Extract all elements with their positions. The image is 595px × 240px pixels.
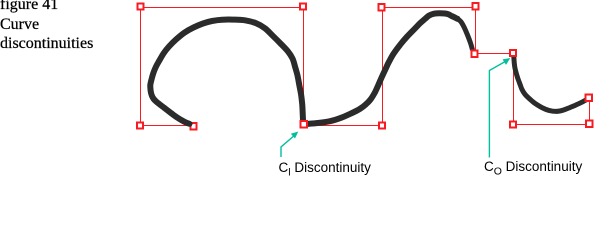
wire: control polygon seg2 left [382, 7, 384, 125]
node: control point seg2 P-bottom [379, 122, 385, 128]
wire: control polygon seg3 left [513, 53, 515, 125]
wire: control polygon seg1 right [303, 8, 305, 125]
control point squares [137, 3, 593, 128]
wire: control polygon seg2 top [382, 7, 476, 9]
arrow: C0 callout [489, 61, 507, 158]
node: control point seg2 P-topleft [379, 4, 385, 10]
label: C0 Discontinuity [484, 159, 582, 174]
caption text block [0, 0, 58, 14]
curve segment 1 (big loop) [150, 20, 303, 124]
node: control point seg2 P-topright [473, 3, 479, 9]
node: control point seg1 P-topright [300, 3, 306, 9]
node: curve end point seg3 [586, 95, 592, 101]
wire: gap line between seg2 end and seg3 start [475, 53, 513, 55]
wire: control polygon seg2 right [475, 6, 477, 54]
wire: control polygon seg3 right [589, 98, 591, 125]
wire: control polygon seg2 bottom [304, 125, 383, 127]
node: C0 discontinuity start point seg3 [510, 50, 516, 56]
curve segment 2 end taper [458, 19, 473, 50]
wire: control polygon seg1 top [141, 7, 304, 9]
node: curve start point seg1 [191, 123, 197, 129]
node: control point seg1 P-bottomleft [137, 122, 143, 128]
wire: control polygon seg1 left [140, 8, 142, 126]
label: C1 Discontinuity [279, 160, 371, 175]
node: control point seg1 P-topleft [137, 3, 143, 9]
arrowhead: C1 callout [291, 132, 299, 139]
wire: control polygon seg3 bottom [513, 124, 590, 126]
node: C1 discontinuity joint point [301, 121, 307, 127]
arrow: C1 callout [281, 135, 296, 158]
node: curve end point seg2 [472, 51, 478, 57]
curve segment 2 (S with hump) [306, 13, 458, 124]
arrowhead: C0 callout [503, 58, 511, 65]
node: control point seg3 P-bottomright [586, 121, 592, 127]
wire: control polygon seg1 bottom [140, 125, 194, 127]
node: control point seg3 P-bottomleft [510, 122, 516, 128]
curve segment 3 (small U) [514, 57, 588, 112]
